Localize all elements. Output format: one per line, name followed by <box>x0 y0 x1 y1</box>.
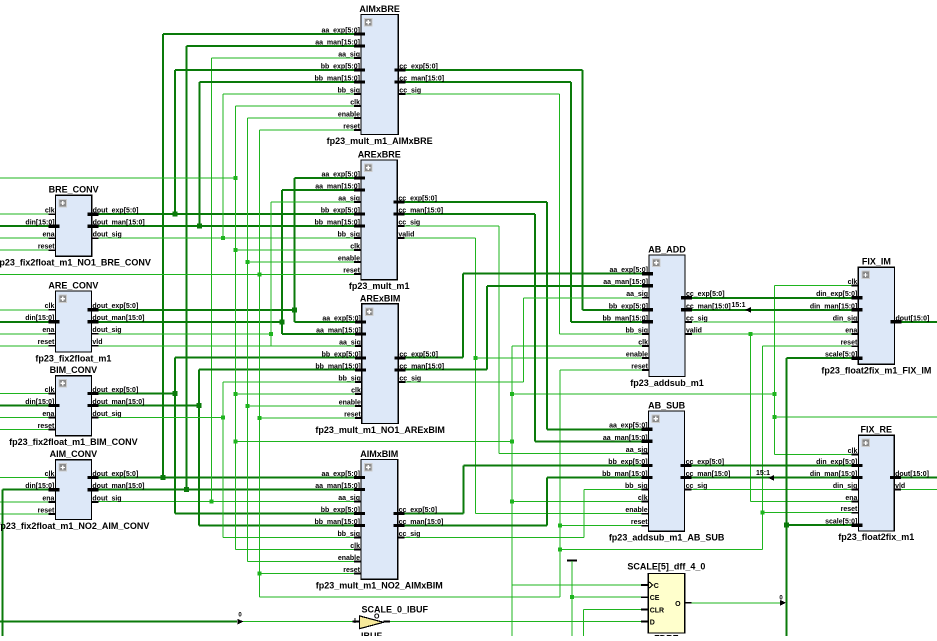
svg-text:reset: reset <box>841 340 858 347</box>
svg-text:aa_man[15:0]: aa_man[15:0] <box>603 279 648 286</box>
svg-text:clk: clk <box>848 448 858 455</box>
svg-text:clk: clk <box>45 303 55 310</box>
svg-text:clk: clk <box>848 279 858 286</box>
svg-text:din_man[15:0]: din_man[15:0] <box>810 471 857 478</box>
svg-text:bb_sig: bb_sig <box>337 87 360 94</box>
svg-text:fp23_fix2float_m1_BIM_CONV: fp23_fix2float_m1_BIM_CONV <box>9 437 138 447</box>
svg-text:BRE_CONV: BRE_CONV <box>49 185 99 195</box>
svg-text:aa_sig: aa_sig <box>339 339 361 346</box>
svg-text:clk: clk <box>638 495 648 502</box>
svg-text:fp23_mult_m1_NO1_ARExBIM: fp23_mult_m1_NO1_ARExBIM <box>315 425 445 435</box>
svg-text:fp23_addsub_m1_AB_SUB: fp23_addsub_m1_AB_SUB <box>609 533 725 543</box>
svg-text:clk: clk <box>45 208 55 215</box>
svg-text:ena: ena <box>42 495 54 502</box>
svg-text:ena: ena <box>845 327 857 334</box>
svg-text:din[15:0]: din[15:0] <box>25 399 54 406</box>
svg-text:fp23_fix2float_m1_NO2_AIM_CONV: fp23_fix2float_m1_NO2_AIM_CONV <box>0 521 149 531</box>
svg-text:reset: reset <box>38 508 55 515</box>
svg-text:din_sig: din_sig <box>833 483 858 490</box>
svg-text:bb_exp[5:0]: bb_exp[5:0] <box>608 459 647 466</box>
svg-text:din[15:0]: din[15:0] <box>25 483 54 490</box>
svg-text:bb_sig: bb_sig <box>337 231 360 238</box>
svg-text:dout_man[15:0]: dout_man[15:0] <box>92 483 144 490</box>
svg-text:enable: enable <box>338 555 360 562</box>
svg-text:reset: reset <box>38 244 55 251</box>
svg-text:reset: reset <box>631 519 648 526</box>
svg-text:dout_sig: dout_sig <box>92 495 121 502</box>
svg-text:CLR: CLR <box>650 607 664 614</box>
svg-text:aa_sig: aa_sig <box>338 195 360 202</box>
svg-text:vld: vld <box>895 483 905 490</box>
svg-text:enable: enable <box>338 255 360 262</box>
svg-text:dout_exp[5:0]: dout_exp[5:0] <box>92 471 138 478</box>
svg-text:cc_exp[5:0]: cc_exp[5:0] <box>686 459 725 466</box>
svg-text:aa_sig: aa_sig <box>626 291 648 298</box>
svg-text:aa_man[15:0]: aa_man[15:0] <box>315 183 360 190</box>
svg-text:scale[5:0]: scale[5:0] <box>825 352 857 359</box>
svg-text:aa_exp[5:0]: aa_exp[5:0] <box>322 315 361 322</box>
svg-text:cc_sig: cc_sig <box>399 375 421 382</box>
svg-text:AB_SUB: AB_SUB <box>648 400 686 410</box>
svg-text:cc_exp[5:0]: cc_exp[5:0] <box>399 507 438 514</box>
svg-text:bb_exp[5:0]: bb_exp[5:0] <box>321 63 360 70</box>
svg-text:clk: clk <box>350 543 360 550</box>
svg-text:bb_exp[5:0]: bb_exp[5:0] <box>322 351 361 358</box>
svg-text:IBUF: IBUF <box>361 631 382 636</box>
svg-text:clk: clk <box>45 387 55 394</box>
svg-text:clk: clk <box>45 471 55 478</box>
svg-text:cc_exp[5:0]: cc_exp[5:0] <box>686 291 725 298</box>
svg-text:fp23_float2fix_m1_FIX_IM: fp23_float2fix_m1_FIX_IM <box>821 366 931 376</box>
svg-text:valid: valid <box>686 327 702 334</box>
svg-text:dout_man[15:0]: dout_man[15:0] <box>92 399 144 406</box>
svg-text:reset: reset <box>343 123 360 130</box>
svg-text:cc_man[15:0]: cc_man[15:0] <box>686 471 731 478</box>
svg-text:fp23_fix2float_m1_NO1_BRE_CONV: fp23_fix2float_m1_NO1_BRE_CONV <box>0 258 151 268</box>
svg-text:cc_sig: cc_sig <box>399 531 421 538</box>
svg-text:cc_sig: cc_sig <box>399 87 421 94</box>
svg-text:cc_man[15:0]: cc_man[15:0] <box>399 75 444 82</box>
svg-text:clk: clk <box>638 339 648 346</box>
svg-text:din[15:0]: din[15:0] <box>25 220 54 227</box>
svg-text:cc_man[15:0]: cc_man[15:0] <box>399 519 444 526</box>
svg-text:bb_sig: bb_sig <box>625 483 648 490</box>
svg-text:AIM_CONV: AIM_CONV <box>50 449 98 459</box>
svg-text:dout_man[15:0]: dout_man[15:0] <box>93 220 145 227</box>
svg-text:aa_exp[5:0]: aa_exp[5:0] <box>609 267 648 274</box>
svg-text:reset: reset <box>38 339 55 346</box>
svg-text:aa_sig: aa_sig <box>338 495 360 502</box>
svg-text:fp23_addsub_m1: fp23_addsub_m1 <box>630 378 704 388</box>
svg-text:din_exp[5:0]: din_exp[5:0] <box>816 291 857 298</box>
svg-text:reset: reset <box>38 423 55 430</box>
svg-text:cc_exp[5:0]: cc_exp[5:0] <box>399 351 438 358</box>
svg-text:AB_ADD: AB_ADD <box>648 244 686 254</box>
svg-text:dout_sig: dout_sig <box>92 327 121 334</box>
svg-text:bb_sig: bb_sig <box>337 531 360 538</box>
svg-text:bb_sig: bb_sig <box>338 375 361 382</box>
svg-text:ena: ena <box>845 495 857 502</box>
svg-text:dout_sig: dout_sig <box>93 232 122 239</box>
svg-text:clk: clk <box>350 243 360 250</box>
svg-text:enable: enable <box>339 399 361 406</box>
svg-text:aa_man[15:0]: aa_man[15:0] <box>603 435 648 442</box>
svg-text:bb_exp[5:0]: bb_exp[5:0] <box>609 303 648 310</box>
svg-text:dout_exp[5:0]: dout_exp[5:0] <box>92 303 138 310</box>
svg-text:aa_exp[5:0]: aa_exp[5:0] <box>321 471 360 478</box>
svg-text:clk: clk <box>350 99 360 106</box>
svg-text:cc_man[15:0]: cc_man[15:0] <box>399 363 444 370</box>
svg-text:din_sig: din_sig <box>833 315 858 322</box>
svg-text:aa_man[15:0]: aa_man[15:0] <box>315 483 360 490</box>
svg-text:ena: ena <box>42 327 54 334</box>
svg-text:SCALE[5]_dff_4_0: SCALE[5]_dff_4_0 <box>627 562 705 572</box>
svg-text:aa_exp[5:0]: aa_exp[5:0] <box>321 171 360 178</box>
svg-text:O: O <box>675 601 681 608</box>
svg-text:cc_exp[5:0]: cc_exp[5:0] <box>399 63 438 70</box>
svg-text:aa_sig: aa_sig <box>626 447 648 454</box>
svg-text:fp23_mult_m1_AIMxBRE: fp23_mult_m1_AIMxBRE <box>327 136 433 146</box>
svg-text:fp23_mult_m1: fp23_mult_m1 <box>349 281 410 291</box>
svg-text:fp23_float2fix_m1: fp23_float2fix_m1 <box>838 532 914 542</box>
svg-text:ARE_CONV: ARE_CONV <box>48 280 98 290</box>
svg-text:FIX_IM: FIX_IM <box>862 257 891 267</box>
svg-text:dout[15:0]: dout[15:0] <box>895 471 929 478</box>
svg-text:reset: reset <box>343 267 360 274</box>
svg-text:fp23_mult_m1_NO2_AIMxBIM: fp23_mult_m1_NO2_AIMxBIM <box>316 581 443 591</box>
svg-text:dout[15:0]: dout[15:0] <box>896 315 930 322</box>
svg-text:SCALE_0_IBUF: SCALE_0_IBUF <box>362 605 429 615</box>
svg-text:FIX_RE: FIX_RE <box>860 425 892 435</box>
svg-text:ena: ena <box>43 232 55 239</box>
svg-text:dout_man[15:0]: dout_man[15:0] <box>92 315 144 322</box>
svg-text:cc_man[15:0]: cc_man[15:0] <box>686 303 731 310</box>
svg-text:bb_sig: bb_sig <box>625 327 648 334</box>
svg-text:reset: reset <box>631 364 648 371</box>
svg-text:valid: valid <box>398 231 414 238</box>
svg-text:dout_exp[5:0]: dout_exp[5:0] <box>92 387 138 394</box>
svg-text:bb_exp[5:0]: bb_exp[5:0] <box>321 507 360 514</box>
svg-text:aa_exp[5:0]: aa_exp[5:0] <box>609 423 648 430</box>
svg-text:aa_man[15:0]: aa_man[15:0] <box>316 327 361 334</box>
svg-text:aa_sig: aa_sig <box>338 51 360 58</box>
svg-text:I: I <box>354 618 356 625</box>
svg-text:clk: clk <box>351 387 361 394</box>
svg-text:bb_man[15:0]: bb_man[15:0] <box>602 471 648 478</box>
svg-text:din_man[15:0]: din_man[15:0] <box>810 303 857 310</box>
svg-text:AIMxBRE: AIMxBRE <box>359 4 400 14</box>
svg-text:reset: reset <box>841 506 858 513</box>
svg-text:din[15:0]: din[15:0] <box>25 315 54 322</box>
svg-text:aa_man[15:0]: aa_man[15:0] <box>315 39 360 46</box>
svg-text:O: O <box>374 614 380 621</box>
svg-text:enable: enable <box>625 507 647 514</box>
svg-text:D: D <box>650 620 655 627</box>
svg-text:cc_man[15:0]: cc_man[15:0] <box>398 207 443 214</box>
svg-text:ARExBIM: ARExBIM <box>360 293 401 303</box>
svg-text:bb_man[15:0]: bb_man[15:0] <box>314 519 360 526</box>
svg-text:reset: reset <box>343 567 360 574</box>
svg-text:CE: CE <box>650 595 660 602</box>
svg-text:AIMxBIM: AIMxBIM <box>360 449 398 459</box>
svg-text:C: C <box>654 583 659 590</box>
svg-text:bb_man[15:0]: bb_man[15:0] <box>314 219 360 226</box>
svg-text:ena: ena <box>42 411 54 418</box>
svg-text:cc_sig: cc_sig <box>398 219 420 226</box>
svg-text:ARExBRE: ARExBRE <box>358 149 401 159</box>
svg-text:cc_sig: cc_sig <box>686 315 708 322</box>
svg-text:bb_man[15:0]: bb_man[15:0] <box>315 363 361 370</box>
svg-text:cc_sig: cc_sig <box>686 483 708 490</box>
svg-text:scale[5:0]: scale[5:0] <box>825 519 857 526</box>
svg-text:bb_man[15:0]: bb_man[15:0] <box>314 75 360 82</box>
svg-text:bb_man[15:0]: bb_man[15:0] <box>602 315 648 322</box>
svg-text:fp23_fix2float_m1: fp23_fix2float_m1 <box>35 353 111 363</box>
svg-text:aa_exp[5:0]: aa_exp[5:0] <box>321 27 360 34</box>
svg-text:enable: enable <box>626 351 648 358</box>
svg-text:reset: reset <box>344 411 361 418</box>
svg-text:15:1: 15:1 <box>731 302 745 309</box>
svg-text:dout_exp[5:0]: dout_exp[5:0] <box>93 208 139 215</box>
svg-text:din_exp[5:0]: din_exp[5:0] <box>816 459 857 466</box>
svg-text:vld: vld <box>92 339 102 346</box>
svg-text:BIM_CONV: BIM_CONV <box>50 365 98 375</box>
svg-text:15:1: 15:1 <box>756 470 770 477</box>
svg-text:cc_exp[5:0]: cc_exp[5:0] <box>398 195 437 202</box>
svg-text:enable: enable <box>338 111 360 118</box>
svg-text:dout_sig: dout_sig <box>92 411 121 418</box>
svg-text:bb_exp[5:0]: bb_exp[5:0] <box>321 207 360 214</box>
